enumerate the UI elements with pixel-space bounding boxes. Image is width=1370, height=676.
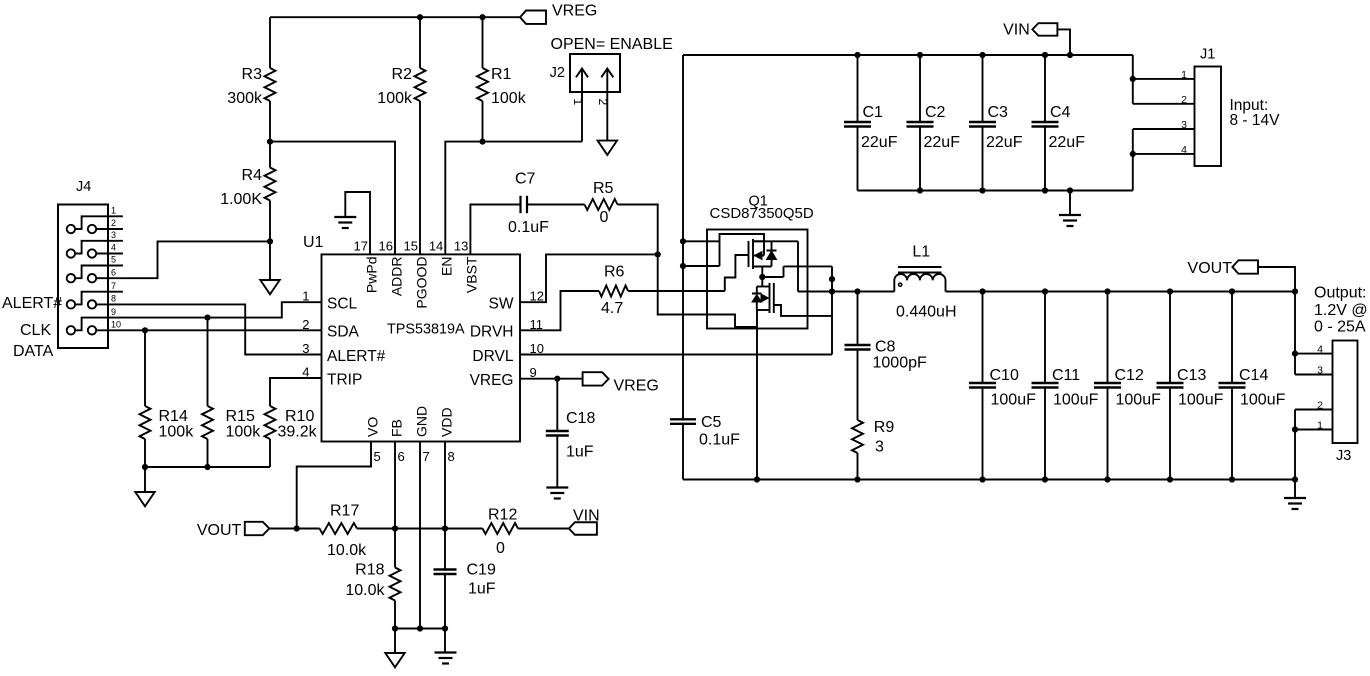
- svg-text:2: 2: [1181, 94, 1187, 106]
- svg-text:R6: R6: [604, 264, 625, 281]
- wire VBST pin: [470, 205, 520, 255]
- wire VOUT flag to J3 bus: [1258, 267, 1295, 292]
- svg-text:DATA: DATA: [13, 343, 54, 360]
- svg-text:10.0k: 10.0k: [345, 582, 385, 599]
- svg-text:2: 2: [111, 218, 116, 228]
- svg-text:R18: R18: [355, 562, 384, 579]
- power flag VREG mid: [583, 372, 609, 385]
- wire DRVH to R6: [520, 291, 599, 330]
- svg-text:5: 5: [374, 449, 381, 464]
- svg-text:TPS53819A: TPS53819A: [387, 322, 465, 338]
- svg-text:22uF: 22uF: [986, 134, 1023, 151]
- capacitor C18: [556, 379, 558, 431]
- svg-text:0.1uF: 0.1uF: [508, 219, 549, 236]
- diode body top FET: [753, 240, 798, 242]
- svg-text:R12: R12: [488, 507, 517, 524]
- svg-text:9: 9: [111, 307, 116, 317]
- svg-text:3: 3: [875, 439, 884, 456]
- svg-text:FB: FB: [388, 419, 404, 437]
- svg-text:R14: R14: [159, 408, 188, 425]
- svg-text:3: 3: [302, 341, 309, 356]
- wire VREG pin 9: [520, 378, 583, 380]
- svg-text:VOUT: VOUT: [1188, 260, 1233, 277]
- svg-text:100uF: 100uF: [1240, 392, 1286, 409]
- wire J3 VOUT bus: [1294, 292, 1296, 375]
- wire SW inner staircase: [761, 267, 763, 287]
- capacitor C11: [1044, 292, 1046, 384]
- capacitor C5: [670, 418, 696, 420]
- capacitor C3: [982, 55, 984, 122]
- transistor Q1 top FET: [748, 241, 750, 267]
- resistor R9: [852, 420, 863, 453]
- ground under C19: [444, 629, 446, 653]
- svg-text:7: 7: [423, 449, 430, 464]
- svg-text:C2: C2: [925, 104, 946, 121]
- wire J1 GND bus: [1132, 129, 1134, 191]
- svg-text:R15: R15: [226, 408, 255, 425]
- svg-text:ALERT#: ALERT#: [327, 348, 386, 365]
- svg-text:SDA: SDA: [327, 324, 360, 341]
- wire VIN entries to Q1: [683, 240, 720, 242]
- svg-text:4: 4: [1317, 344, 1323, 356]
- power flag VIN top: [1032, 23, 1057, 36]
- diode body bottom FET: [752, 293, 762, 295]
- resistor R6: [599, 286, 628, 297]
- capacitor C12: [1107, 292, 1109, 384]
- svg-text:1.00K: 1.00K: [220, 191, 262, 208]
- pin 4 of J4: [88, 249, 96, 257]
- wire VIN rail left vertical: [682, 55, 684, 419]
- svg-text:0 - 25A: 0 - 25A: [1314, 319, 1366, 336]
- svg-text:1000pF: 1000pF: [873, 355, 927, 372]
- svg-text:5: 5: [111, 255, 116, 265]
- svg-text:7: 7: [111, 281, 116, 291]
- wire Q1 PGND down: [756, 310, 758, 480]
- node VREG rail junctions: [417, 14, 423, 20]
- connector J4: [58, 205, 108, 349]
- pin 10 of J4: [88, 326, 96, 334]
- wire J4 pin10 to SDA: [123, 329, 322, 331]
- resistor R14: [144, 330, 146, 406]
- capacitor C1: [857, 55, 859, 122]
- pin 7 of J4: [67, 300, 75, 308]
- svg-text:39.2k: 39.2k: [278, 424, 318, 441]
- ground under C18: [546, 486, 568, 488]
- svg-text:2: 2: [1317, 400, 1323, 412]
- ground under R4: [260, 280, 279, 294]
- svg-text:VBST: VBST: [464, 256, 480, 293]
- wire C7 to R5: [527, 204, 585, 206]
- svg-text:DRVL: DRVL: [472, 348, 513, 365]
- pin 2 of J4: [88, 225, 96, 233]
- resistor R18: [394, 529, 396, 568]
- wire VIN top rail: [683, 54, 1133, 56]
- capacitor C4: [1044, 55, 1046, 122]
- wire J4 pin6 to ADDR node: [123, 241, 270, 278]
- svg-text:PGOOD: PGOOD: [413, 257, 429, 309]
- resistor R2: [419, 17, 421, 68]
- svg-text:0.440uH: 0.440uH: [896, 304, 957, 321]
- svg-text:16: 16: [379, 239, 393, 254]
- wire gnd rail under C1-C4: [858, 190, 1133, 192]
- pin 1 of J1: [1133, 78, 1195, 80]
- svg-text:ALERT#: ALERT#: [2, 295, 62, 312]
- power flag VOUT mid: [1232, 260, 1258, 273]
- svg-text:10.0k: 10.0k: [327, 542, 367, 559]
- pin 1 of J3: [1295, 429, 1333, 431]
- svg-text:4: 4: [111, 243, 116, 253]
- svg-text:C7: C7: [515, 171, 536, 188]
- svg-text:100k: 100k: [159, 424, 195, 441]
- svg-text:14: 14: [429, 239, 443, 254]
- svg-text:100uF: 100uF: [991, 392, 1037, 409]
- wire bottom junction: [395, 628, 445, 630]
- capacitor C2: [919, 55, 921, 122]
- pin 3 of J1: [1133, 128, 1195, 130]
- svg-text:L1: L1: [912, 244, 930, 261]
- svg-text:CSD87350Q5D: CSD87350Q5D: [710, 205, 814, 222]
- svg-text:300k: 300k: [227, 90, 263, 107]
- connector J3: [1333, 341, 1358, 444]
- svg-text:R3: R3: [242, 66, 263, 83]
- ground at PwPd: [334, 216, 356, 218]
- svg-text:C11: C11: [1052, 367, 1080, 384]
- pin 3 of J3: [1295, 374, 1333, 376]
- svg-text:22uF: 22uF: [1049, 134, 1086, 151]
- pin 4 of J3: [1295, 353, 1333, 355]
- wire bottom gate from DRVL: [774, 266, 832, 354]
- resistor R5: [585, 199, 618, 210]
- resistor R1: [482, 17, 484, 68]
- svg-text:OPEN= ENABLE: OPEN= ENABLE: [551, 36, 673, 53]
- svg-text:3: 3: [1181, 119, 1187, 131]
- svg-text:C5: C5: [701, 414, 722, 431]
- wire J3 GND bus: [1294, 410, 1296, 480]
- wire VOUT rail: [946, 291, 1296, 293]
- capacitor C19: [434, 568, 457, 570]
- svg-text:J2: J2: [550, 65, 565, 81]
- svg-text:R9: R9: [874, 419, 895, 436]
- pin 2 of J3: [1295, 409, 1333, 411]
- wire J4 pin8 to ALERT#: [123, 304, 322, 354]
- svg-text:2: 2: [302, 317, 309, 332]
- svg-text:0: 0: [600, 209, 609, 226]
- svg-text:8: 8: [448, 449, 455, 464]
- svg-text:22uF: 22uF: [924, 134, 961, 151]
- wire SW pin to node: [520, 254, 658, 302]
- svg-text:0.1uF: 0.1uF: [699, 432, 740, 449]
- pin 8 of J4: [88, 300, 96, 308]
- svg-text:J4: J4: [76, 179, 91, 195]
- svg-text:3: 3: [1317, 365, 1323, 377]
- ground under J3: [1294, 480, 1296, 498]
- resistor R10: [265, 406, 276, 439]
- jumper J2: [570, 54, 620, 92]
- svg-text:J1: J1: [1200, 47, 1215, 63]
- svg-text:100k: 100k: [491, 90, 527, 107]
- pin 4 of J1: [1133, 153, 1195, 155]
- svg-text:Output:: Output:: [1314, 285, 1366, 302]
- wire R6 to Q1 top gate: [628, 290, 725, 292]
- svg-text:EN: EN: [439, 257, 455, 276]
- wire TRIP to R10: [270, 378, 322, 406]
- wire to ground: [144, 467, 146, 492]
- wire R14 R15 R10 common: [145, 466, 270, 468]
- svg-text:1: 1: [302, 289, 309, 304]
- svg-text:VOUT: VOUT: [197, 522, 242, 539]
- pin 2 of J1: [1133, 103, 1195, 105]
- svg-text:4.7: 4.7: [601, 300, 623, 317]
- svg-text:100uF: 100uF: [1053, 392, 1099, 409]
- svg-text:100k: 100k: [377, 90, 413, 107]
- wire GND pin: [419, 442, 421, 629]
- wire SW out to L1: [798, 291, 894, 293]
- svg-text:J3: J3: [1336, 448, 1351, 464]
- svg-text:R2: R2: [392, 66, 413, 83]
- svg-text:0: 0: [496, 540, 505, 557]
- resistor R17: [320, 523, 358, 534]
- wire VOUT flag to R17: [269, 528, 319, 530]
- svg-text:4: 4: [1181, 144, 1187, 156]
- svg-text:C14: C14: [1239, 367, 1268, 384]
- capacitor C13: [1169, 292, 1171, 384]
- svg-text:R4: R4: [242, 167, 263, 184]
- wire J4 pin9 to SCL: [123, 302, 322, 317]
- svg-text:10: 10: [111, 320, 121, 330]
- svg-text:C19: C19: [467, 562, 496, 579]
- wire ADDR net horizontal: [270, 142, 395, 255]
- wire FB pin: [394, 442, 396, 529]
- svg-text:ADDR: ADDR: [388, 257, 404, 297]
- ground under J2: [598, 141, 617, 155]
- svg-text:6: 6: [398, 449, 405, 464]
- svg-text:100uF: 100uF: [1178, 392, 1224, 409]
- svg-text:R10: R10: [285, 408, 314, 425]
- svg-text:100uF: 100uF: [1116, 392, 1162, 409]
- resistor R15: [207, 318, 209, 406]
- ground under VIN capacitor bank: [1069, 191, 1071, 215]
- resistor R12: [445, 528, 483, 530]
- svg-text:6: 6: [111, 267, 116, 277]
- pin 5 of J4: [67, 274, 75, 282]
- svg-text:15: 15: [404, 239, 418, 254]
- svg-text:VREG: VREG: [552, 2, 597, 19]
- svg-text:VO: VO: [364, 417, 380, 437]
- svg-text:VIN: VIN: [573, 508, 600, 525]
- power flag VREG: [520, 11, 546, 24]
- resistor R4: [269, 142, 271, 168]
- wire PwPd pin to ground: [345, 192, 370, 254]
- svg-text:R5: R5: [593, 180, 614, 197]
- svg-text:22uF: 22uF: [861, 134, 898, 151]
- pin 9 of J4: [67, 326, 75, 334]
- svg-text:C18: C18: [566, 410, 595, 427]
- svg-text:1.2V @: 1.2V @: [1314, 302, 1368, 319]
- wire VREG top rail: [270, 16, 520, 18]
- wire TGR entry: [707, 315, 757, 328]
- svg-text:DRVH: DRVH: [470, 324, 514, 341]
- svg-text:TRIP: TRIP: [327, 371, 362, 388]
- svg-text:1uF: 1uF: [566, 444, 594, 461]
- capacitor C8: [857, 292, 859, 346]
- svg-text:C4: C4: [1050, 104, 1071, 121]
- svg-text:VDD: VDD: [438, 407, 454, 437]
- wire top gate staircase: [725, 255, 749, 291]
- svg-text:17: 17: [354, 239, 368, 254]
- ground under R14: [135, 492, 154, 506]
- svg-text:PwPd: PwPd: [363, 257, 379, 294]
- wire DRVL: [520, 354, 832, 356]
- wire EN net horizontal: [445, 142, 582, 255]
- wire R17 to FB node: [357, 528, 445, 530]
- svg-text:C10: C10: [990, 367, 1019, 384]
- svg-text:8: 8: [111, 294, 116, 304]
- svg-text:C13: C13: [1177, 367, 1206, 384]
- svg-text:VREG: VREG: [614, 378, 659, 395]
- svg-text:C3: C3: [988, 104, 1009, 121]
- wire gnd bottom rail: [683, 479, 1295, 481]
- wire VO pin to feedback: [297, 442, 371, 529]
- node R4 bottom junction: [267, 238, 273, 244]
- capacitor C10: [982, 292, 984, 384]
- svg-text:VREG: VREG: [470, 372, 514, 389]
- wire R5 to SW node: [618, 205, 708, 315]
- pin 6 of J4: [88, 274, 96, 282]
- svg-text:VIN: VIN: [1003, 22, 1030, 39]
- svg-text:1uF: 1uF: [468, 581, 496, 598]
- pin 3 of J4: [67, 249, 75, 257]
- svg-text:3: 3: [111, 230, 116, 240]
- ground under R18: [394, 629, 396, 654]
- svg-text:R1: R1: [491, 66, 512, 83]
- svg-text:GND: GND: [413, 406, 429, 437]
- svg-text:C1: C1: [863, 104, 884, 121]
- svg-text:1: 1: [1317, 420, 1323, 432]
- resistor R3: [269, 17, 271, 68]
- capacitor C14: [1231, 292, 1233, 384]
- svg-text:1: 1: [111, 206, 116, 216]
- svg-text:U1: U1: [303, 234, 324, 251]
- pin 1 of J4: [67, 225, 75, 233]
- svg-text:C12: C12: [1115, 367, 1144, 384]
- connector J1: [1195, 67, 1222, 167]
- svg-text:C8: C8: [875, 339, 896, 356]
- svg-text:100k: 100k: [226, 424, 262, 441]
- svg-text:SW: SW: [489, 296, 514, 313]
- svg-text:SCL: SCL: [327, 296, 358, 313]
- power flag VOUT bottom: [245, 522, 270, 535]
- capacitor C7: [519, 196, 521, 213]
- svg-text:R17: R17: [330, 503, 359, 520]
- svg-text:CLK: CLK: [20, 322, 51, 339]
- wire J1 VIN bus: [1132, 55, 1134, 104]
- svg-text:1: 1: [1181, 69, 1187, 81]
- wire R4 to ground: [269, 241, 271, 280]
- wire VIN flag to rail: [1057, 29, 1070, 55]
- op-amp U1 TPS53819A controller IC body: [322, 254, 521, 441]
- transistor Q1 bottom FET: [769, 283, 771, 313]
- svg-text:13: 13: [454, 239, 468, 254]
- svg-text:8 - 14V: 8 - 14V: [1230, 112, 1281, 129]
- power flag VIN bottom: [569, 522, 597, 535]
- wire VDD pin: [444, 442, 446, 570]
